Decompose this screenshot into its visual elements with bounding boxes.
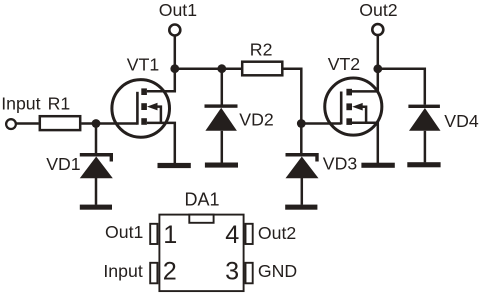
wire node to VD1: [95, 124, 98, 154]
node Out1 junction: [170, 64, 179, 73]
diode VD2: [205, 104, 238, 162]
wire Out2 stem: [377, 35, 380, 69]
svg-text:VT1: VT1: [127, 55, 159, 75]
wire node to VT2 gate: [301, 122, 341, 125]
svg-text:VD1: VD1: [46, 154, 80, 174]
node VT2 gate junction: [297, 119, 306, 128]
svg-text:3: 3: [225, 258, 239, 286]
wire Out2 node to VD4: [378, 69, 425, 105]
terminal Out1: [169, 25, 180, 36]
DA1 pin 1: [150, 224, 157, 244]
wire R1 to VT1 gate: [81, 122, 137, 125]
node input junction: [92, 119, 101, 128]
svg-text:Input: Input: [1, 94, 40, 114]
ground below VD4: [407, 162, 440, 167]
svg-text:VT2: VT2: [328, 54, 360, 74]
ground below VD2: [205, 163, 238, 168]
svg-text:Out1: Out1: [159, 0, 197, 20]
svg-text:Out1: Out1: [105, 222, 143, 242]
wire R2 to VT2 gate node: [284, 69, 302, 124]
svg-text:4: 4: [225, 221, 239, 249]
DA1 pin 4: [246, 224, 253, 244]
transistor VT2: [325, 69, 382, 163]
wire Out1 node to R2: [175, 67, 241, 70]
svg-text:Out2: Out2: [258, 223, 296, 243]
svg-text:R2: R2: [250, 39, 273, 59]
diode VD3 (zener): [286, 124, 319, 205]
svg-text:VD4: VD4: [444, 111, 479, 131]
svg-text:Input: Input: [103, 261, 142, 281]
diode VD4: [408, 105, 440, 163]
wire input to R1: [16, 122, 39, 125]
node Out2 junction: [373, 64, 382, 73]
svg-text:2: 2: [163, 258, 177, 286]
DA1 pin 3: [246, 263, 253, 284]
ground below VT1 source: [158, 163, 191, 168]
ground below VD1: [80, 205, 112, 210]
terminal Out2: [372, 24, 383, 35]
node VD2 junction: [217, 64, 226, 73]
terminal Input: [6, 119, 16, 129]
wire Out1 stem: [174, 35, 177, 69]
resistor R2: [242, 62, 282, 76]
svg-text:R1: R1: [48, 94, 71, 114]
svg-text:VD3: VD3: [323, 154, 358, 174]
DA1 pin 2: [150, 263, 157, 284]
DA1 index notch: [189, 215, 213, 223]
svg-text:VD2: VD2: [239, 110, 273, 130]
diode VD1 (zener): [80, 153, 113, 205]
ground below VD3: [285, 205, 317, 210]
wire node to VD2: [221, 69, 224, 105]
ground below VT2 source: [361, 163, 394, 168]
svg-text:GND: GND: [258, 261, 297, 281]
IC DA1 package: [150, 215, 253, 292]
svg-text:Out2: Out2: [359, 0, 397, 20]
resistor R1: [40, 116, 80, 130]
transistor VT1: [112, 69, 175, 163]
svg-text:1: 1: [163, 221, 177, 249]
svg-text:DA1: DA1: [185, 190, 220, 210]
